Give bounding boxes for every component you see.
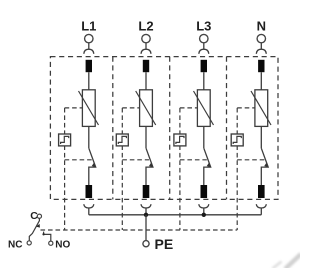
terminal L1 circle [85, 34, 93, 42]
wire [203, 72, 205, 90]
disconnect switch S1 blade [89, 148, 96, 185]
thermal sensing dashed link to varistor MOV2 [122, 107, 139, 109]
wire to PE bus [88, 208, 90, 215]
mechanical linkage dashed line branch 1 [64, 108, 66, 230]
switch S4 contact tick [264, 163, 268, 167]
varistor MOV1 body [82, 90, 95, 127]
thermal disconnector fuse F1 top [86, 60, 92, 72]
terminal PE circle [143, 241, 149, 247]
svg-text:L1: L1 [81, 19, 96, 34]
switch S3 contact tick [207, 163, 211, 167]
wire PE drop [145, 215, 147, 241]
switch S1 contact tick [92, 163, 96, 167]
thermal disconnector fuse F4 bottom [258, 185, 265, 198]
wire from terminal L3 [203, 43, 205, 49]
wire from terminal L2 [145, 43, 147, 49]
changeover switch blade [29, 218, 39, 240]
plug-in contact arc bottom 3 [199, 204, 209, 208]
module separator dashed line x=169.7 [169, 57, 171, 200]
disconnect switch S3 blade [204, 148, 211, 185]
plug-in contact arc top 2 [141, 49, 151, 54]
wire to PE bus [260, 208, 262, 215]
wire [145, 72, 147, 90]
module separator dashed line x=112.8 [112, 57, 114, 200]
NO fixed contact [44, 232, 51, 242]
varistor MOV1 diagonal [79, 91, 99, 125]
mechanical linkage dashed line branch 4 [236, 108, 238, 230]
junction dot node PE bus / L3 branch [202, 213, 206, 217]
plug-in contact arc top 3 [199, 49, 209, 54]
wire [260, 72, 262, 90]
thermal disconnector fuse F3 bottom [201, 185, 208, 198]
varistor MOV2 diagonal [136, 91, 156, 125]
remote contact terminal NO circle [49, 241, 53, 245]
plug-in contact arc bottom 1 [84, 204, 94, 208]
SPD enclosure dashed outline [50, 57, 278, 200]
junction dot node PE bus / L2 branch [144, 213, 148, 217]
disconnector indicator U3 box [174, 134, 186, 146]
svg-text:L3: L3 [196, 19, 211, 34]
wire [88, 72, 90, 90]
svg-text:NO: NO [55, 239, 70, 250]
wire from terminal N [260, 43, 262, 49]
thermal sensing dashed link to varistor MOV4 [237, 107, 255, 109]
switch S2 contact tick [149, 163, 153, 167]
svg-text:N: N [257, 19, 266, 34]
mechanical linkage dashed line branch 2 [121, 108, 123, 230]
disconnector indicator U1 box [59, 134, 71, 146]
wire [260, 126, 262, 148]
terminal L3 circle [200, 34, 208, 42]
wire from terminal L1 [88, 43, 90, 49]
thermal disconnector fuse F2 top [143, 60, 149, 72]
PE bus [89, 214, 261, 216]
varistor MOV3 body [197, 90, 210, 127]
thermal disconnector fuse F4 top [258, 60, 264, 72]
plug-in contact arc top 1 [84, 49, 94, 54]
mechanical link dashed to switch S3 [180, 159, 207, 161]
disconnector indicator U4 box [231, 134, 243, 146]
disconnector indicator U3 break symbol [176, 136, 184, 144]
module separator dashed line x=226.5 [226, 57, 228, 200]
remote signalling dashed collector line [41, 229, 238, 231]
thermal sensing dashed link to varistor MOV1 [65, 107, 83, 109]
svg-text:NC: NC [8, 239, 22, 250]
varistor MOV4 body [255, 90, 268, 127]
wire [88, 126, 90, 148]
mechanical link dashed to switch S4 [237, 159, 264, 161]
terminal L2 circle [142, 34, 150, 42]
wire [203, 126, 205, 148]
varistor MOV2 body [140, 90, 153, 127]
disconnector indicator U1 break symbol [61, 136, 69, 144]
wire [145, 126, 147, 148]
disconnector indicator U2 box [116, 134, 128, 146]
varistor MOV4 diagonal [251, 91, 271, 125]
mechanical link dashed to switch S1 [65, 159, 92, 161]
thermal sensing dashed link to varistor MOV3 [180, 107, 198, 109]
disconnect switch S2 blade [146, 148, 153, 185]
varistor MOV3 diagonal [194, 91, 214, 125]
disconnector indicator U2 break symbol [118, 136, 126, 144]
wire to PE bus [203, 208, 205, 215]
disconnector indicator U4 break symbol [233, 136, 241, 144]
thermal disconnector fuse F1 bottom [86, 185, 93, 198]
plug-in contact arc top 4 [256, 49, 266, 54]
disconnect switch S4 blade [261, 148, 268, 185]
mechanical link dashed to switch S2 [122, 159, 149, 161]
plug-in contact arc bottom 2 [141, 204, 151, 208]
NO contact dot [42, 233, 44, 235]
thermal disconnector fuse F2 bottom [143, 185, 150, 198]
terminal N circle [257, 34, 265, 42]
svg-text:L2: L2 [138, 19, 153, 34]
remote contact terminal NC circle [27, 241, 31, 245]
plug-in contact arc bottom 4 [256, 204, 266, 208]
remote contact terminal C circle [37, 214, 41, 218]
changeover blade arrow tick [36, 224, 40, 228]
wire to PE bus [145, 208, 147, 215]
mechanical linkage dashed line branch 3 [179, 108, 181, 230]
thermal disconnector fuse F3 top [201, 60, 207, 72]
svg-text:PE: PE [155, 236, 174, 252]
